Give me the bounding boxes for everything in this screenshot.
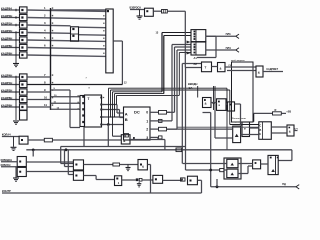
svg-text:ПД: ПД <box>282 183 286 186</box>
svg-text:ОА: ОА <box>189 86 193 90</box>
svg-text:DC: DC <box>134 110 140 115</box>
svg-text:11: 11 <box>44 103 47 107</box>
svg-text:Т: Т <box>88 97 90 101</box>
svg-text:&: & <box>220 67 222 71</box>
svg-text:&: & <box>289 130 291 134</box>
svg-text:КАДРМЕТ: КАДРМЕТ <box>267 68 279 71</box>
svg-text:Т: Т <box>205 66 207 70</box>
svg-text:ПЛ1: ПЛ1 <box>226 32 232 36</box>
svg-text:СЧ: СЧ <box>295 129 299 131</box>
svg-text:+5В: +5В <box>286 109 291 113</box>
svg-text:R: R <box>275 108 277 112</box>
svg-text:А2: А2 <box>194 62 198 66</box>
svg-text:ПЛ4: ПЛ4 <box>226 46 232 50</box>
svg-text:В: В <box>260 129 262 132</box>
svg-text:&: & <box>142 165 144 169</box>
svg-text:ВВОДН: ВВОДН <box>188 82 198 86</box>
svg-text:Рассогласов: Рассогласов <box>232 118 246 120</box>
svg-text:B: B <box>125 117 128 122</box>
svg-text:запроса: запроса <box>232 121 241 123</box>
svg-text:РВ: РВ <box>229 65 232 67</box>
svg-text:10: 10 <box>44 95 48 99</box>
svg-text:край запроса: край запроса <box>231 59 245 62</box>
svg-text:1: 1 <box>146 119 148 123</box>
svg-text:А1: А1 <box>194 56 198 60</box>
svg-text:С: С <box>260 125 262 128</box>
svg-text:A: A <box>125 111 128 116</box>
svg-text:0: 0 <box>146 111 148 115</box>
svg-text:2: 2 <box>146 128 148 132</box>
